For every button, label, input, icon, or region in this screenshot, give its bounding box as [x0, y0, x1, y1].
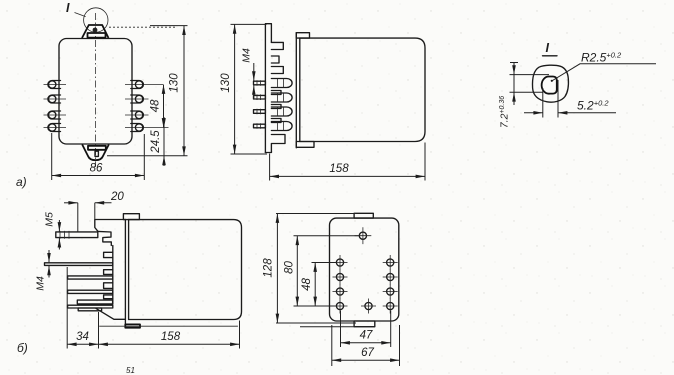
- dim 5.2 extension left: [542, 88, 544, 118]
- M5 stud shaft: [56, 231, 98, 239]
- dim 158 extension right: [239, 321, 241, 349]
- dim 158 line: [270, 175, 425, 177]
- bottom foot tab: [125, 324, 140, 327]
- terminal pin 2: [68, 276, 113, 279]
- dim 130 line: [183, 26, 185, 156]
- detail circle I: [84, 8, 108, 32]
- mounting plate front: [296, 33, 314, 148]
- relay front view (a): [16, 1, 188, 189]
- svg-text:47: 47: [360, 330, 373, 342]
- svg-text:158: 158: [161, 331, 181, 343]
- dim 67 line: [332, 359, 400, 361]
- dim 34 extension left: [66, 267, 68, 349]
- svg-text:M5: M5: [44, 212, 56, 227]
- terminal pin 3: [68, 290, 113, 293]
- relay side view (b) with long terminals: [17, 191, 242, 375]
- R2.5 leader line: [553, 64, 657, 81]
- relay side view (top middle): [220, 24, 425, 181]
- svg-text:130: 130: [169, 73, 181, 93]
- flange tooth top 3: [271, 67, 283, 74]
- dim M4 leader arrows: [253, 63, 255, 81]
- dim 7.2 line: [513, 75, 515, 93]
- stud bushing 3: [254, 107, 293, 116]
- svg-text:80: 80: [284, 261, 296, 274]
- relay body side outline: [300, 38, 425, 141]
- dim 5.2 extension right: [557, 80, 559, 118]
- left pin row 4: [333, 299, 348, 314]
- dim 80 line: [296, 236, 298, 306]
- svg-text:128: 128: [263, 258, 275, 278]
- right pin 4: [125, 124, 169, 132]
- svg-text:51: 51: [126, 366, 135, 375]
- flange face: [112, 246, 114, 305]
- dim 5.2 arrow right and text line: [558, 112, 616, 114]
- dim 128 extension top: [276, 213, 356, 215]
- flange tooth mid 1: [271, 91, 281, 95]
- tab bottom edge extension: [300, 326, 375, 328]
- right pin 2: [125, 95, 149, 103]
- svg-text:67: 67: [361, 347, 374, 359]
- svg-text:20: 20: [110, 191, 124, 203]
- dim 47 line: [341, 342, 391, 344]
- right pin row 3: [383, 284, 398, 299]
- dim 80 extension top: [294, 235, 360, 237]
- terminal pin 4: [68, 305, 113, 308]
- svg-text:M4: M4: [35, 276, 47, 291]
- top mounting tab: [82, 25, 109, 38]
- dim 24.5 outside arrow top: [163, 117, 165, 128]
- flange tooth mid 3: [271, 119, 281, 123]
- right pin row 1: [383, 255, 398, 270]
- stud bushing 2: [254, 93, 293, 102]
- svg-text:48: 48: [301, 278, 313, 291]
- left pin row 3: [333, 284, 348, 299]
- dim 7.2 outside arrow bottom: [513, 92, 515, 105]
- flange tooth top 1: [271, 42, 283, 49]
- flange socket 2: [104, 270, 113, 275]
- svg-text:86: 86: [90, 163, 103, 175]
- flange socket 4: [104, 295, 113, 299]
- dim 7.2 top tick: [510, 62, 518, 64]
- flange top edge: [95, 220, 126, 232]
- rear flange plate: [265, 24, 271, 153]
- dim 128 extension bottom: [276, 322, 356, 324]
- dim 34 line: [67, 343, 98, 345]
- dim 24.5 outside arrow bottom: [163, 156, 165, 166]
- leader tip dot: [551, 80, 553, 82]
- svg-text:а): а): [16, 175, 27, 189]
- dim 5.2 arrow left: [524, 112, 543, 114]
- dim 47 extension right: [390, 311, 392, 348]
- svg-text:34: 34: [76, 331, 89, 343]
- dim 7.2 outside arrow top: [513, 63, 515, 75]
- dim 130 line: [234, 24, 236, 154]
- dim 130 extension bottom: [107, 155, 188, 157]
- top tab: [123, 214, 139, 220]
- leader to detail label: [75, 13, 86, 17]
- stud bushing 4: [254, 122, 293, 131]
- bottom tab: [354, 321, 375, 327]
- label I underline: [543, 55, 558, 57]
- body outline: [129, 220, 242, 320]
- right pin row 4: [383, 299, 398, 314]
- dim 20 extension left: [77, 203, 79, 232]
- flange foot: [265, 135, 285, 153]
- dim 86 extension right: [143, 134, 145, 180]
- bottom mounting tab: [82, 145, 109, 161]
- dim 24.5 line: [163, 128, 165, 156]
- svg-text:24.5: 24.5: [150, 130, 162, 154]
- mounting surface line: [99, 325, 238, 327]
- dim 158 line: [99, 343, 240, 345]
- right pin 3: [125, 111, 149, 119]
- top tab hole: [93, 28, 98, 33]
- flange tooth mid 2: [271, 105, 281, 109]
- left pin 4: [44, 124, 67, 132]
- flange bottom slant: [96, 308, 125, 319]
- relay body outline: [59, 39, 132, 145]
- right pin row 2: [383, 270, 398, 285]
- right pin 1: [125, 81, 163, 89]
- left pin 2: [44, 95, 67, 103]
- svg-text:I: I: [66, 1, 70, 15]
- dim 20 extension right: [94, 203, 96, 220]
- top pin: [355, 227, 372, 244]
- flange tooth top 2: [271, 56, 279, 63]
- hole with radius R2.5: [542, 76, 557, 93]
- dim M4 arrows: [48, 250, 50, 262]
- svg-text:M4: M4: [241, 48, 253, 63]
- relay rear view (pin layout): [263, 213, 400, 366]
- terminal pin 1 long: [45, 263, 113, 266]
- dim 158 extension left: [269, 154, 271, 181]
- dim 80/48 extension bottom: [294, 305, 337, 307]
- svg-text:158: 158: [329, 163, 349, 175]
- left pin row 2: [333, 270, 348, 285]
- dim 20 line: [64, 202, 78, 204]
- svg-text:130: 130: [220, 73, 232, 93]
- left pin 3: [44, 111, 67, 119]
- dim 48 line: [314, 263, 316, 307]
- detail I (enlarged lug): [499, 41, 657, 128]
- dim 86 line: [52, 175, 145, 177]
- dim 130 extension top: [150, 25, 188, 27]
- M5 stud head: [98, 231, 111, 245]
- dim 67 extension left: [331, 325, 333, 366]
- bottom tab hole: [95, 151, 98, 156]
- top tab slot: [88, 33, 106, 38]
- svg-text:48: 48: [150, 99, 162, 112]
- body outline: [330, 218, 399, 321]
- flange socket 1: [104, 252, 113, 257]
- dim 7.2 extension top: [510, 74, 550, 76]
- dim 130 extension bottom: [231, 153, 268, 155]
- dim 47 extension left: [340, 311, 342, 348]
- stud bushing 1: [254, 79, 293, 88]
- dim M5 arrows: [58, 220, 60, 232]
- dim 86 extension left: [51, 133, 53, 180]
- lug blob outline: [532, 65, 568, 102]
- dim 130 extension top: [231, 23, 267, 25]
- dim 158 extension right: [424, 143, 426, 181]
- svg-text:I: I: [546, 41, 550, 55]
- dim 48 extension top: [312, 262, 337, 264]
- dim 67 extension right: [399, 325, 401, 366]
- left pin 1: [44, 81, 67, 89]
- bottom center pin: [361, 299, 376, 314]
- mounting plate: [125, 220, 128, 325]
- dim 7.2 extension bottom: [510, 91, 544, 93]
- centerline: [95, 13, 97, 167]
- dim 48 line: [163, 85, 165, 128]
- left pin row 1: [333, 255, 348, 270]
- bracket bar lower: [78, 308, 101, 311]
- dashed axis line from tab: [109, 26, 176, 28]
- dim 128 line: [276, 214, 278, 324]
- flange socket 3: [104, 283, 113, 289]
- top tab: [354, 213, 373, 218]
- bottom tab slot: [88, 146, 106, 150]
- svg-text:б): б): [17, 341, 28, 355]
- bracket bar upper: [77, 300, 112, 304]
- dim 34/158 shared extension: [98, 312, 100, 349]
